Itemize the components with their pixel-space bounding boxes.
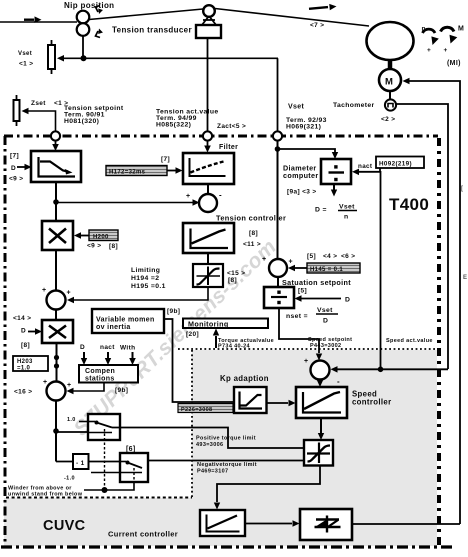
node nip-vset junction [81, 55, 87, 61]
wire variable moment to Kp adaption [164, 319, 234, 402]
svg-text:Negativetorque limit: Negativetorque limit [197, 462, 257, 468]
svg-text:ov inertia: ov inertia [96, 324, 131, 331]
node terminal tension act value [203, 131, 212, 140]
svg-text:T400: T400 [389, 195, 429, 214]
svg-text:<7 >: <7 > [310, 22, 324, 29]
svg-text:computer: computer [283, 171, 319, 180]
svg-text:H069(321): H069(321) [286, 124, 321, 131]
summing point speed [311, 361, 330, 380]
svg-text:[20]: [20] [186, 331, 199, 338]
wire filter to sum [207, 184, 209, 194]
svg-text:M: M [385, 77, 393, 88]
svg-text:Zact<5 >: Zact<5 > [217, 123, 246, 130]
watermark [69, 235, 281, 440]
svg-text:493=3006: 493=3006 [196, 442, 223, 448]
wire into -1 [56, 461, 73, 463]
nip adjust arrow lower [96, 31, 101, 38]
svg-text:D: D [21, 328, 26, 335]
wire speed setpoint [279, 308, 319, 353]
svg-text:Satuation setpoint: Satuation setpoint [282, 278, 351, 287]
svg-text:(MI): (MI) [447, 60, 461, 67]
svg-text:<9 >: <9 > [9, 176, 23, 183]
svg-text:<15 >: <15 > [227, 270, 245, 277]
parameter H172 [106, 166, 167, 176]
svg-text:Vset: Vset [339, 204, 355, 211]
wire Zset wiper [28, 111, 56, 132]
wire Vset to diameter computer [278, 149, 336, 152]
wire web transducer to roll [215, 9, 369, 27]
svg-text:[7]: [7] [161, 156, 170, 163]
svg-text:H172=32ms: H172=32ms [109, 170, 146, 176]
CUVC border bottom [1, 545, 453, 548]
arrow web direction mid [309, 7, 328, 9]
wire torque limiter to current controller [217, 465, 320, 502]
svg-text:Monitoring: Monitoring [188, 320, 229, 329]
svg-text:Vset: Vset [18, 51, 32, 57]
block variable moment of inertia [92, 309, 164, 333]
svg-text:Compen: Compen [85, 368, 115, 375]
svg-text:- 1: - 1 [76, 460, 85, 467]
svg-text:Nip position: Nip position [64, 1, 114, 10]
svg-text:H145 = 0.1: H145 = 0.1 [310, 267, 343, 273]
svg-text:H085(322): H085(322) [156, 122, 191, 129]
svg-text:CUVC: CUVC [43, 518, 86, 534]
arrow diameter output [333, 184, 335, 190]
block current controller [200, 510, 245, 536]
summing point 16 [47, 382, 66, 401]
svg-text:Vset: Vset [317, 307, 333, 314]
svg-text:[9b]: [9b] [115, 387, 128, 394]
gain -1 [73, 454, 89, 469]
arrow torque actual into monitoring [215, 336, 217, 348]
svg-text:With: With [120, 345, 135, 352]
node switch branch [53, 428, 59, 434]
potentiometer Vset [48, 45, 55, 69]
svg-text:Speed act.value: Speed act.value [386, 338, 433, 344]
CUVC dashed boundary left [6, 497, 192, 499]
wire nact to diameter computer [359, 168, 380, 172]
svg-text:unwind stand from below: unwind stand from below [8, 492, 83, 498]
svg-text:D =: D = [315, 207, 327, 214]
wire controller to limiter [207, 253, 209, 264]
svg-text:<6 >: <6 > [341, 253, 355, 260]
block limiter 15 [193, 264, 223, 287]
svg-text:stations: stations [85, 376, 115, 383]
svg-text:Tachometer: Tachometer [333, 102, 375, 109]
wire char block down [55, 182, 57, 221]
svg-text:[5]: [5] [307, 253, 316, 260]
svg-text:+: + [67, 290, 71, 297]
wire motor to tacho [389, 91, 391, 100]
block speed controller [296, 387, 347, 418]
svg-text:[8]: [8] [109, 243, 118, 250]
parameter H200 [89, 230, 118, 241]
svg-text:+: + [444, 47, 448, 54]
svg-text:-1.0: -1.0 [64, 476, 75, 482]
svg-text:M: M [458, 26, 464, 33]
svg-text:H081(320): H081(320) [64, 118, 99, 125]
svg-text:+: + [262, 256, 266, 263]
wire current controller to converter [245, 523, 292, 525]
svg-text:Tension transducer: Tension transducer [112, 26, 192, 35]
wire Vset wiper [64, 57, 278, 59]
switch positive direction [88, 414, 120, 440]
wire web entry [0, 21, 77, 23]
node terminal tension setpoint [51, 131, 60, 140]
node branch to tension sum [53, 199, 59, 205]
svg-text:D: D [80, 344, 85, 351]
wire -1 to switch2 [89, 461, 121, 463]
svg-text:P734 40-24: P734 40-24 [218, 344, 251, 350]
wire multiplier to sum [55, 250, 57, 291]
wire speed sum to controller [319, 380, 321, 382]
svg-text:[8]: [8] [228, 277, 237, 284]
svg-text:[7]: [7] [10, 153, 19, 160]
svg-text:Filter: Filter [219, 144, 238, 151]
svg-text:H194 =2: H194 =2 [131, 275, 159, 282]
svg-text:nact: nact [100, 344, 115, 351]
svg-text:[8]: [8] [249, 230, 258, 237]
T400 border left [4, 136, 7, 546]
wire tacho feedback right [396, 104, 448, 369]
tachometer [385, 99, 396, 110]
divider diameter computer [321, 159, 351, 184]
wire armature supply [409, 81, 460, 524]
arrow nact into compen [107, 352, 109, 358]
block torque limiter [304, 440, 333, 466]
CUVC dotted boundary horizontal [178, 348, 437, 350]
svg-text:P226=3008: P226=3008 [181, 407, 212, 413]
svg-text:Kp adaption: Kp adaption [220, 374, 269, 383]
tension transducer roller [203, 5, 215, 17]
wire compen to sum 16 [73, 383, 104, 392]
wire transducer down [207, 38, 209, 132]
wire nact down [380, 171, 382, 369]
tension transducer body [196, 25, 221, 38]
wire sum16 down [55, 401, 57, 462]
wire terminal to char block [55, 141, 57, 145]
nip roller upper [77, 11, 90, 24]
arrow With into compen [132, 352, 134, 358]
svg-text:[9b]: [9b] [167, 308, 180, 315]
node Vset branch [275, 146, 281, 152]
block converter [300, 509, 352, 540]
svg-text:Positive torque limit: Positive torque limit [196, 436, 256, 442]
switch negative direction [120, 453, 148, 482]
winder roll [367, 22, 414, 60]
summing point tension error [199, 194, 217, 212]
svg-text:<16 >: <16 > [14, 389, 32, 396]
motor M1 [379, 69, 401, 91]
summing point saturation [269, 259, 287, 277]
svg-text:H200: H200 [93, 235, 109, 241]
wire to switch1 [56, 431, 88, 433]
wire to tension sum circle [56, 202, 193, 204]
divider saturation [264, 287, 294, 308]
arc torque M [441, 27, 455, 31]
svg-text:H203: H203 [17, 359, 33, 365]
T400 border right [437, 138, 441, 546]
wire switch1 output to positive limit [112, 428, 304, 449]
svg-text:H092(219): H092(219) [379, 161, 412, 168]
svg-text:E: E [463, 275, 467, 281]
wire sum to divider [277, 277, 279, 287]
svg-text:Current controller: Current controller [108, 530, 178, 539]
svg-text:Limiting: Limiting [131, 267, 160, 274]
wire web rising to transducer [89, 9, 203, 20]
nip adjust arrow upper [96, 6, 101, 13]
svg-text:-: - [219, 191, 222, 200]
svg-text:<9 >: <9 > [87, 243, 101, 250]
block tension characteristic [7] [31, 151, 81, 182]
svg-text:1.0: 1.0 [67, 417, 76, 423]
arrow D into compen [83, 352, 85, 358]
svg-text:P469=3107: P469=3107 [197, 469, 228, 475]
CUVC gray zone [4, 350, 437, 546]
node nact speed junction [378, 367, 384, 373]
wire switch2 output to negative limit [148, 460, 304, 462]
svg-text:nset =: nset = [286, 313, 308, 320]
parameter H203 [13, 356, 48, 372]
svg-text:+: + [304, 358, 308, 365]
wire converter output [352, 523, 460, 525]
svg-text:+: + [43, 379, 47, 386]
svg-text:Zset: Zset [31, 100, 46, 107]
potentiometer Zset [14, 100, 20, 121]
svg-text:-: - [337, 377, 340, 386]
svg-text:+: + [186, 193, 190, 200]
svg-text:P443=3002: P443=3002 [310, 343, 341, 349]
svg-text:Vset: Vset [288, 104, 305, 111]
arc speed n [423, 29, 436, 33]
CUVC dotted boundary vertical [191, 350, 193, 497]
arrow web direction left [24, 19, 34, 21]
svg-text:H195 =0.1: H195 =0.1 [131, 283, 166, 290]
wire nip roller down [82, 36, 84, 58]
block Kp adaption [234, 387, 267, 413]
block compensations [79, 365, 138, 383]
svg-text:D: D [345, 297, 350, 304]
block monitoring [183, 319, 268, 329]
svg-text:[: [ [461, 186, 463, 192]
tension transducer legs [202, 16, 217, 26]
block filter [183, 153, 234, 184]
wire speed actual into sum [337, 368, 448, 370]
svg-text:Tension controller: Tension controller [216, 214, 286, 223]
wire Vset down to terminal [277, 58, 279, 132]
parameter H145 [307, 263, 360, 273]
svg-text:<14 >: <14 > [13, 315, 31, 322]
svg-text:controller: controller [352, 398, 391, 407]
parameter P226 [178, 404, 233, 413]
wire sum to multiplier D [55, 310, 57, 321]
svg-text:D: D [11, 165, 16, 172]
wire Zact terminal to filter [207, 141, 209, 146]
parameter H092 [376, 157, 424, 169]
wire Kp to speed controller [267, 402, 288, 404]
svg-text:<2 >: <2 > [381, 116, 395, 123]
svg-text:<4 >: <4 > [323, 253, 337, 260]
node terminal Vset [273, 131, 282, 140]
svg-text:n: n [344, 214, 349, 221]
multiplier tension [42, 221, 73, 250]
svg-text:=1.0: =1.0 [17, 366, 31, 372]
svg-text:[9a] <3 >: [9a] <3 > [287, 189, 317, 196]
svg-text:Variable momen: Variable momen [96, 317, 155, 324]
svg-text:+: + [67, 382, 71, 389]
node control junction [102, 487, 108, 493]
svg-text:[5]: [5] [298, 288, 307, 295]
multiplier D [42, 320, 73, 343]
T400 border top [4, 135, 438, 138]
wire multiplier D down [56, 343, 58, 381]
svg-text:<11 >: <11 > [243, 241, 261, 248]
svg-text:+: + [42, 287, 46, 294]
wire direction control [84, 482, 134, 490]
svg-text:+: + [289, 259, 293, 266]
svg-text:+: + [427, 47, 431, 54]
summing point tension trim [47, 291, 66, 310]
block tension controller [183, 223, 234, 253]
svg-text:[8]: [8] [21, 342, 30, 349]
wire switch2 stub [91, 472, 120, 474]
svg-text:n: n [422, 26, 426, 33]
node H203 tap [54, 355, 59, 360]
nip roller lower [77, 23, 90, 36]
svg-text:D: D [323, 318, 328, 325]
wire limiter output to sum [74, 287, 208, 300]
svg-text:<1 >: <1 > [19, 61, 33, 68]
roll shaft [388, 60, 393, 69]
svg-text:nact: nact [358, 163, 373, 170]
wire speed controller to torque limiter [320, 418, 322, 433]
wire Vset terminal down [277, 141, 279, 259]
